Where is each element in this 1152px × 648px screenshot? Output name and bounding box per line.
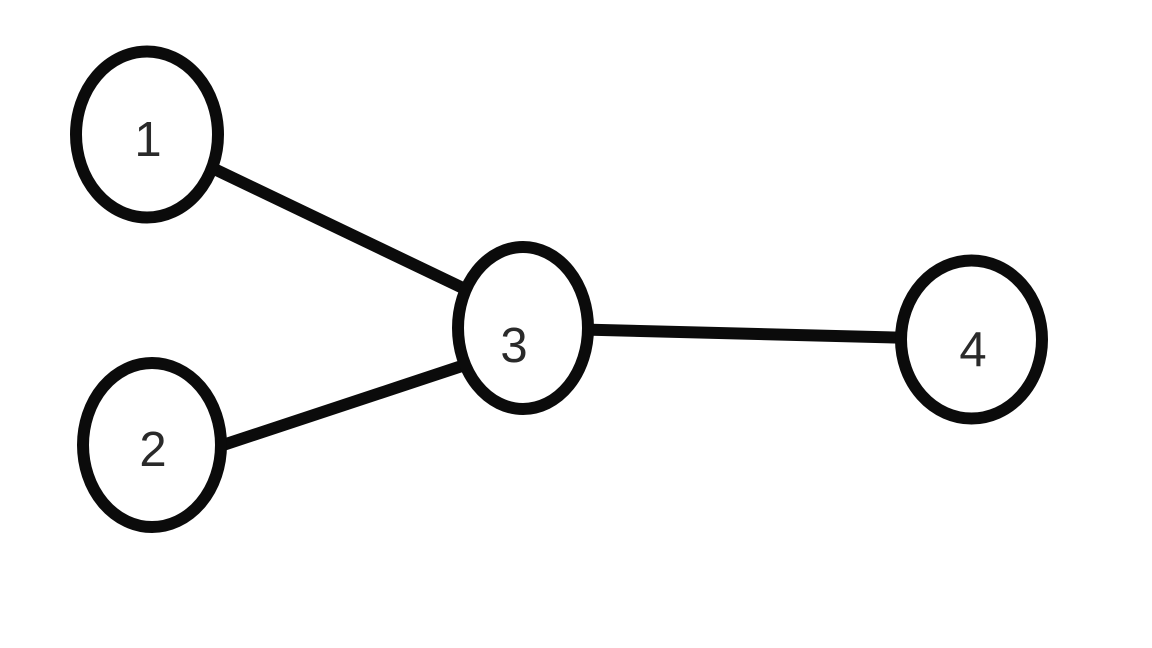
wire edge 2-3 [205, 360, 480, 451]
node 2 circle [83, 363, 221, 527]
wire edge 1-3 [160, 143, 490, 301]
svg-text:1: 1 [134, 113, 161, 167]
node 1 circle [76, 52, 218, 218]
node 3 circle [458, 247, 588, 409]
wire edge 3-4 [523, 328, 972, 340]
svg-text:3: 3 [500, 319, 527, 373]
node 4 circle [901, 261, 1042, 419]
svg-text:2: 2 [139, 423, 166, 477]
svg-text:4: 4 [959, 323, 986, 377]
